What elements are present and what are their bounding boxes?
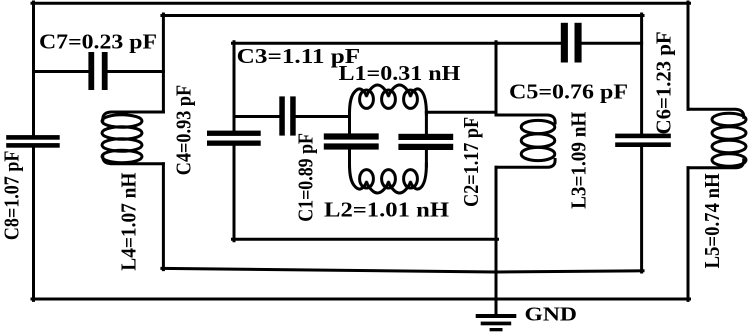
inductor L2 xyxy=(350,164,427,193)
svg-text:C8=1.07 pF: C8=1.07 pF xyxy=(0,151,24,241)
svg-text:L5=0.74 nH: L5=0.74 nH xyxy=(700,173,724,268)
wire C7 branch xyxy=(34,70,164,73)
wire second box left xyxy=(162,14,165,270)
capacitor C8 xyxy=(6,135,60,148)
wire C1 branch xyxy=(234,115,350,118)
label C6 value xyxy=(652,31,676,134)
wire C3 box bottom xyxy=(233,238,498,241)
label L4 value xyxy=(117,173,141,271)
wire second box top xyxy=(162,14,643,17)
svg-text:L4=1.07 nH: L4=1.07 nH xyxy=(117,173,141,271)
label L5 value xyxy=(700,173,724,268)
wire ground stem xyxy=(495,239,498,314)
capacitor C4 xyxy=(207,131,261,146)
ground xyxy=(476,314,517,331)
inductor L1 xyxy=(350,85,427,114)
label GND xyxy=(525,305,578,326)
svg-text:C7=0.23 pF: C7=0.23 pF xyxy=(39,29,157,53)
label C4 value xyxy=(172,85,196,175)
label L1 value xyxy=(339,61,461,85)
label C7 value xyxy=(39,29,157,53)
wire second box right xyxy=(640,14,643,272)
svg-text:C2=1.17 pF: C2=1.17 pF xyxy=(459,117,483,207)
svg-text:L2=1.01 nH: L2=1.01 nH xyxy=(324,197,449,221)
capacitor C1 xyxy=(279,96,295,135)
wire C3 box right xyxy=(495,42,498,240)
wire tank right side xyxy=(425,112,428,166)
svg-text:C1=0.89 pF: C1=0.89 pF xyxy=(294,133,318,222)
wire second box bottom xyxy=(162,268,643,272)
inductor L3 xyxy=(496,115,555,167)
label L2 value xyxy=(324,197,449,221)
wire tank output xyxy=(426,111,496,114)
inductor L5 xyxy=(688,109,746,168)
wire tank left side xyxy=(348,112,351,166)
label C2 value xyxy=(459,117,483,207)
svg-text:L1=0.31 nH: L1=0.31 nH xyxy=(339,61,461,85)
wire outer box left xyxy=(32,2,35,300)
svg-text:C5=0.76 pF: C5=0.76 pF xyxy=(509,79,628,103)
capacitor C7 xyxy=(88,52,107,90)
inductor L4 xyxy=(102,112,163,164)
capacitor C5 xyxy=(561,23,582,63)
wire C3 box left xyxy=(233,42,236,241)
wire C3 box top xyxy=(233,42,498,45)
svg-text:C4=0.93 pF: C4=0.93 pF xyxy=(172,85,196,175)
label C8 value xyxy=(0,151,24,241)
capacitor tank left (C1 value plate) xyxy=(324,133,379,149)
label C1 value xyxy=(294,133,318,222)
capacitor C6 xyxy=(615,134,671,147)
label L3 value xyxy=(567,112,591,209)
wire outer box bottom xyxy=(32,298,690,301)
svg-text:L3=1.09 nH: L3=1.09 nH xyxy=(567,112,591,209)
svg-text:GND: GND xyxy=(525,305,578,326)
wire outer box right xyxy=(687,2,690,300)
svg-text:C6=1.23 pF: C6=1.23 pF xyxy=(652,31,676,134)
label C5 value xyxy=(509,79,628,103)
capacitor tank right (C2 value plate) xyxy=(398,134,453,150)
wire C5 branch xyxy=(496,42,642,45)
wire outer box top xyxy=(32,2,690,5)
label C3 value xyxy=(237,44,361,68)
